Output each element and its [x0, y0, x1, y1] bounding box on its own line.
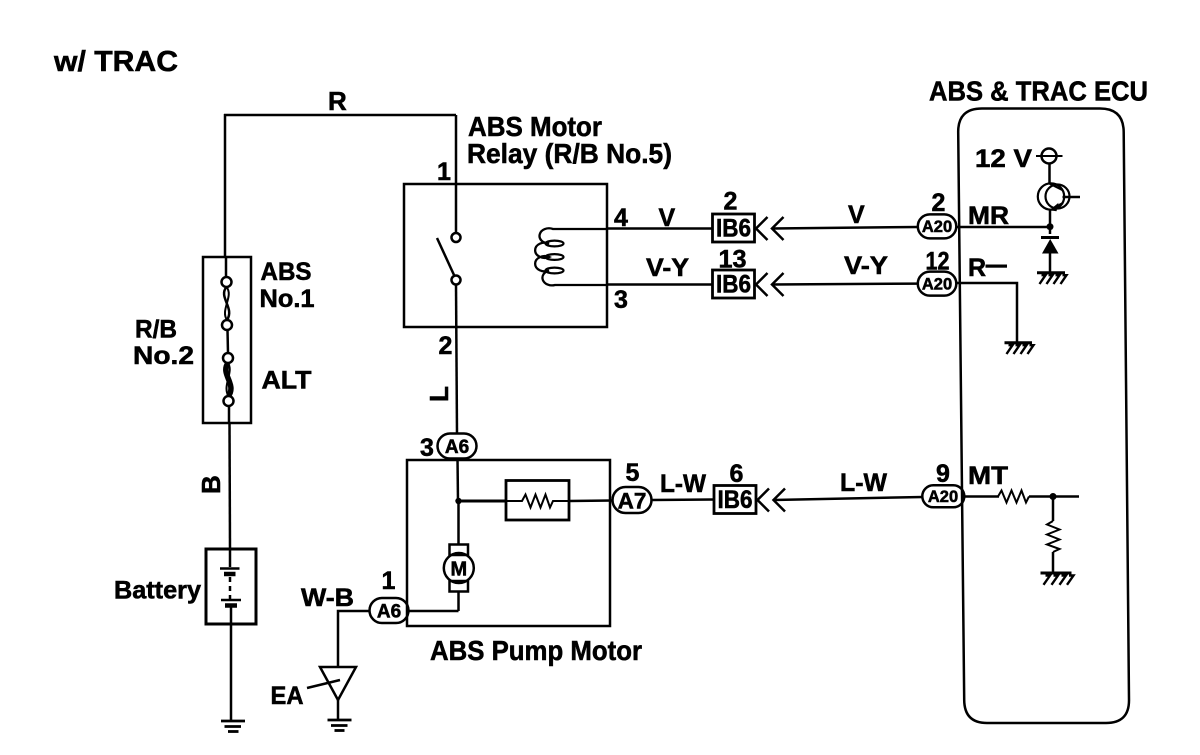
- svg-text:MT: MT: [968, 462, 1008, 490]
- transistor (ECU): [1038, 183, 1064, 209]
- svg-text:IB6: IB6: [718, 486, 753, 514]
- svg-text:L-W: L-W: [840, 469, 887, 497]
- wire L-W long: [774, 497, 924, 500]
- chevrons row 3: [758, 489, 770, 512]
- node junction dot MT: [1050, 493, 1057, 500]
- wire V row (pin4 to IB6): [607, 227, 713, 230]
- connector A7: [613, 487, 652, 513]
- wire battery to ground: [230, 607, 233, 720]
- node junction dot: [455, 498, 461, 504]
- battery cell 1: [229, 550, 232, 567]
- wire A7 to IB6: [652, 498, 715, 501]
- motor M: [450, 545, 469, 556]
- resistor zigzag: [506, 495, 569, 508]
- svg-text:A6: A6: [377, 601, 401, 622]
- connector IB6 (row 1): [713, 214, 755, 242]
- svg-text:A7: A7: [618, 488, 647, 513]
- wire A6 into pump box: [456, 458, 459, 502]
- svg-text:5: 5: [626, 459, 640, 487]
- svg-text:1: 1: [382, 567, 396, 595]
- resistor MT vertical: [1047, 521, 1060, 552]
- svg-text:V-Y: V-Y: [844, 252, 888, 280]
- ECU box ABS & TRAC ECU: [958, 109, 1129, 724]
- wire MT inside ECU: [962, 495, 999, 498]
- connector A20 (row 2): [918, 272, 957, 296]
- ground (MT) hatched: [1041, 573, 1074, 585]
- wire MR inside ECU: [956, 226, 1050, 229]
- svg-text:EA: EA: [271, 682, 304, 710]
- wire below fuse box: [228, 406, 231, 423]
- svg-text:12 V: 12 V: [975, 145, 1032, 173]
- svg-text:IB6: IB6: [716, 215, 751, 243]
- node junction dot MR: [1047, 223, 1054, 230]
- wire transistor to node: [1049, 209, 1052, 234]
- wire pin1 vertical: [455, 115, 458, 233]
- svg-text:No.2: No.2: [133, 342, 194, 370]
- svg-text:w/ TRAC: w/ TRAC: [53, 46, 178, 78]
- svg-text:B: B: [196, 475, 226, 494]
- connector A20 (row 3): [922, 485, 964, 507]
- svg-text:L: L: [424, 386, 454, 402]
- wire motor to bottom: [457, 592, 460, 612]
- battery cell 2: [229, 577, 232, 599]
- connector A20 (row 1): [918, 214, 957, 238]
- wire pin2 vertical: [456, 285, 457, 435]
- wire W-B to EA: [338, 611, 370, 667]
- wire power to transistor: [1048, 164, 1051, 185]
- wire between fuses: [226, 330, 229, 353]
- svg-text:R/B: R/B: [135, 316, 177, 344]
- svg-text:M: M: [450, 559, 467, 581]
- wire down to resistor: [1052, 497, 1055, 522]
- chevrons row 1: [756, 217, 768, 240]
- connector IB6 (row 3): [714, 486, 756, 514]
- svg-text:A6: A6: [445, 437, 469, 458]
- relay coil: [535, 228, 607, 285]
- fuse ALT terminal circles: [223, 353, 233, 363]
- svg-text:9: 9: [936, 460, 950, 488]
- wire left vertical to R/B No.2: [224, 114, 227, 258]
- svg-text:6: 6: [730, 460, 744, 488]
- wire V long: [772, 227, 918, 229]
- ground (EA): [328, 719, 352, 722]
- svg-text:ABS Pump Motor: ABS Pump Motor: [430, 635, 642, 666]
- wire V-Y long: [772, 282, 918, 285]
- svg-text:A20: A20: [922, 218, 952, 236]
- svg-text:Relay (R/B No.5): Relay (R/B No.5): [467, 138, 672, 169]
- resistor box (pump): [506, 481, 569, 521]
- fuse ALT element: [226, 363, 231, 396]
- relay box ABS Motor Relay: [404, 184, 607, 327]
- battery box: [206, 549, 256, 624]
- svg-text:V: V: [848, 201, 865, 229]
- ground (battery): [221, 720, 245, 723]
- svg-text:A20: A20: [928, 488, 958, 506]
- fuse ABS No.1 element: [224, 287, 229, 320]
- svg-text:2: 2: [932, 189, 946, 217]
- ground (R-) hatched: [1005, 343, 1034, 354]
- wire EA to ground: [337, 700, 340, 719]
- wire into fuse 1: [225, 258, 228, 278]
- resistor MT horizontal: [998, 491, 1029, 503]
- junction block R/B No.2 box: [203, 257, 251, 423]
- svg-text:2: 2: [439, 332, 453, 360]
- svg-text:R: R: [328, 86, 347, 116]
- svg-text:L-W: L-W: [660, 470, 706, 498]
- wire dot to motor: [457, 501, 460, 545]
- chevrons row 2: [756, 273, 768, 296]
- wire V-Y row (pin3 to IB6): [607, 283, 713, 286]
- EA pointer line: [307, 680, 340, 688]
- svg-text:V: V: [659, 204, 676, 232]
- diode: [1041, 236, 1059, 239]
- wire dot to resistor: [459, 500, 507, 503]
- wire R- inside ECU: [956, 283, 1017, 342]
- svg-text:R: R: [968, 254, 986, 282]
- EA triangle: [320, 667, 356, 700]
- svg-text:3: 3: [614, 286, 628, 314]
- svg-text:A20: A20: [922, 275, 952, 293]
- svg-text:IB6: IB6: [716, 271, 751, 299]
- wire R top horizontal: [224, 114, 456, 117]
- pump motor box: [407, 460, 610, 626]
- svg-text:Battery: Battery: [114, 577, 201, 605]
- relay switch: [452, 233, 461, 242]
- svg-text:3: 3: [420, 434, 434, 462]
- svg-text:2: 2: [724, 188, 738, 216]
- svg-text:ABS & TRAC ECU: ABS & TRAC ECU: [929, 76, 1148, 107]
- svg-text:ABS: ABS: [261, 258, 312, 286]
- svg-text:ALT: ALT: [262, 367, 312, 395]
- power symbol: [1042, 149, 1057, 164]
- fuse ABS No.1 terminal circles: [222, 277, 232, 287]
- svg-text:No.1: No.1: [260, 285, 315, 313]
- svg-text:1: 1: [437, 158, 451, 186]
- svg-text:V-Y: V-Y: [646, 254, 689, 282]
- connector IB6 (row 2): [713, 270, 755, 298]
- svg-text:W-B: W-B: [301, 584, 354, 612]
- ground (diode) hatched: [1037, 273, 1067, 284]
- wire resistor to A7: [569, 499, 613, 502]
